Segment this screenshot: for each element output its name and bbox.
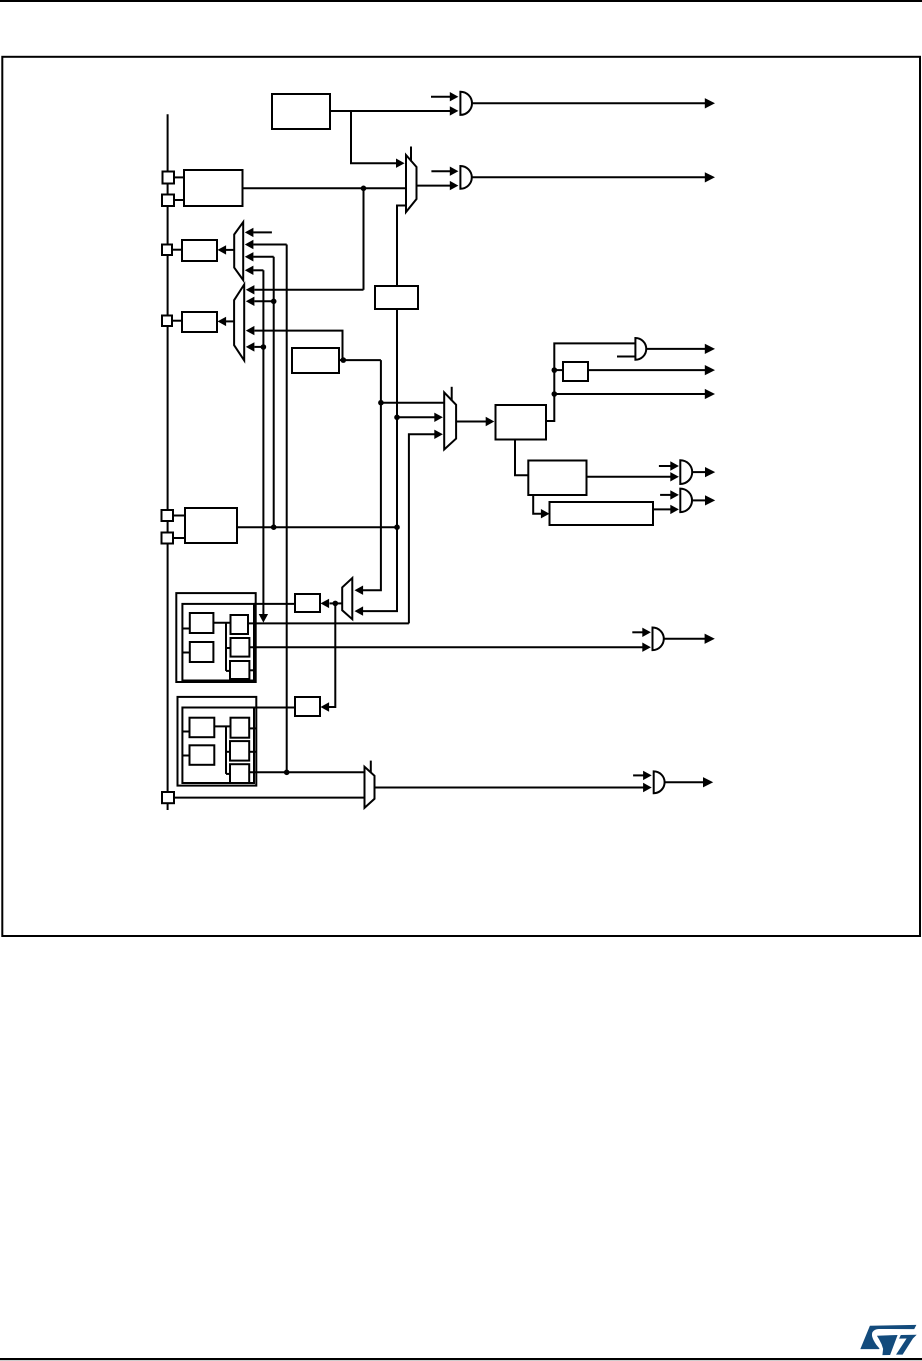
- wire M3 input 4 from V1: [255, 346, 264, 348]
- arrowhead CPU clock output: [705, 389, 715, 399]
- wire CPU clock line: [554, 393, 706, 395]
- wire P5 to B13: [173, 515, 185, 517]
- register box A-d: [231, 638, 250, 657]
- arrowhead G4 upper input: [670, 490, 679, 499]
- wire V1 vertical: [262, 270, 264, 614]
- wire group A rail: [225, 623, 227, 671]
- arrowhead into mux M4 top input: [355, 586, 364, 595]
- junction node rail at B10: [552, 367, 558, 373]
- stub wire G2 upper input: [431, 170, 450, 172]
- arrowhead M3 input 3: [246, 326, 255, 335]
- wire G7 output: [646, 348, 706, 350]
- pad P4: [162, 316, 172, 327]
- register box A-b: [190, 642, 214, 662]
- and-gate G2: [460, 166, 471, 189]
- arrowhead G4 output: [705, 495, 715, 505]
- mux M6 master clock switch: [444, 392, 456, 449]
- wire V8 from L2 up to mux M6 input 3: [409, 434, 436, 623]
- wire G6 output: [665, 781, 705, 783]
- arrowhead mux M6 input 3: [434, 430, 443, 439]
- wire M1 output to G2: [417, 185, 451, 187]
- and-gate G1: [460, 92, 472, 115]
- register box A-a: [190, 613, 214, 633]
- wire group A rail to reg e: [226, 670, 230, 672]
- pad P3: [162, 245, 172, 256]
- mux M5: [365, 767, 375, 808]
- register box B-b: [190, 745, 215, 765]
- arrowhead G5 output: [705, 634, 715, 644]
- pad P1 OSCIN: [163, 172, 175, 184]
- box B9 clock divider CKM: [496, 405, 547, 440]
- arrowhead into mux M4 lower input: [355, 606, 364, 615]
- pad P2 OSCOUT: [162, 195, 174, 207]
- arrowhead M3 input 1: [246, 285, 255, 294]
- wire M6 output to B9: [456, 421, 486, 423]
- arrowhead V1 onto L2 line: [259, 614, 268, 623]
- arrowhead G2 output: [705, 172, 715, 182]
- mux M5 select stub: [370, 761, 372, 773]
- register box A-e: [230, 661, 249, 679]
- wire B13 output to V7 line: [237, 526, 397, 528]
- wire B10 output: [588, 369, 707, 371]
- wire group A left bracket: [183, 628, 190, 630]
- wire M3 input 3 from LSI: [255, 331, 343, 361]
- register box B-d: [230, 741, 249, 761]
- wire V9 down to B8: [329, 603, 335, 707]
- wire M4 output to B7: [330, 602, 343, 604]
- arrowhead M3 input 4: [246, 342, 255, 351]
- and-gate G4: [680, 489, 692, 512]
- wire G3 output: [692, 471, 707, 473]
- box B6 LSI oscillator: [292, 348, 339, 373]
- arrowhead into B9: [486, 417, 495, 426]
- arrowhead G5 upper input: [642, 628, 651, 637]
- wire M5 output to G6: [375, 787, 644, 789]
- stub wire G1 upper input: [431, 96, 451, 98]
- stub wire B-d to frame: [249, 751, 256, 753]
- wire M2 input 4 from V1: [253, 269, 263, 271]
- wire V7 branch to mux M6 input 2: [397, 416, 436, 418]
- arrowhead M2 input 3: [245, 252, 254, 261]
- wire M3 input 1 from HSE V4: [255, 289, 364, 291]
- wire G2 output: [472, 176, 707, 178]
- junction node V2 at B13 line: [271, 524, 277, 530]
- arrowhead G4 lower input: [670, 505, 679, 514]
- wire group A left bracket lower: [183, 652, 190, 654]
- register box B-e: [230, 764, 249, 783]
- arrowhead G2 upper input: [450, 167, 459, 176]
- wire P1 to B2: [174, 176, 184, 178]
- wire rail to B10: [554, 369, 563, 371]
- wire group A to B7: [254, 603, 295, 605]
- and-gate G3: [680, 460, 692, 484]
- mux M2: [234, 222, 243, 280]
- arrowhead G7 output: [705, 344, 715, 354]
- arrowhead G5 lower input: [642, 643, 651, 652]
- arrowhead into B8: [321, 702, 330, 711]
- arrowhead into B4: [218, 245, 227, 254]
- arrowhead into mux M1 top input: [396, 159, 405, 168]
- wire B2 output to mux M1: [243, 187, 407, 189]
- box B7 peripheral divider: [295, 594, 320, 612]
- stub wire A-e to frame: [249, 669, 255, 671]
- arrowhead M2 input 1: [245, 228, 254, 237]
- wire G4 output: [692, 499, 707, 501]
- wire B12 output to G4: [653, 508, 671, 510]
- wire B9 output jog up: [546, 343, 635, 421]
- junction node V6 at mux M6 input 1: [378, 400, 384, 406]
- wire M3 input 2 from V2: [255, 300, 275, 302]
- stub wire G7 lower input: [617, 356, 635, 358]
- junction node V3 at group B line: [284, 770, 290, 776]
- group B inner box: [182, 708, 254, 784]
- wire L3 from A-d to G5: [249, 646, 643, 648]
- box B10 divider: [563, 362, 588, 381]
- wire L2 from A-c to V8: [248, 622, 409, 624]
- arrowhead G3 upper input: [670, 461, 679, 470]
- wire P6 to B13: [173, 537, 185, 539]
- mux M1 select stub: [410, 147, 412, 162]
- figure frame: [2, 57, 920, 936]
- junction node V7 at B13 line: [394, 524, 400, 530]
- box B8 peripheral divider: [295, 697, 320, 716]
- wire P3 to B4: [172, 249, 182, 251]
- junction node HSE line: [361, 186, 367, 192]
- wire B6 output: [339, 359, 381, 361]
- wire V7 from B3 down to mux M4: [363, 309, 398, 611]
- stub wire M2 input 1: [253, 231, 272, 233]
- arrowhead into B7: [321, 599, 330, 608]
- mux M3: [234, 285, 244, 361]
- arrowhead G6 output: [703, 777, 713, 787]
- ST logo: [860, 1325, 916, 1355]
- junction node M4 output at V9: [333, 601, 339, 607]
- wire M2 input 3 from V2: [253, 256, 274, 258]
- arrowhead mux M6 input 2: [434, 413, 443, 422]
- box B1 HSI oscillator: [272, 94, 330, 129]
- bottom rule: [0, 1358, 922, 1360]
- register box B-c: [231, 718, 250, 738]
- and-gate G5: [653, 628, 664, 651]
- mux M6 select stub: [451, 387, 453, 401]
- junction node rail at CPU line: [552, 391, 558, 397]
- stub wire G4 upper input: [660, 494, 671, 496]
- arrowhead into G2 lower input: [450, 181, 459, 190]
- pad P5: [162, 510, 174, 521]
- arrowhead into B5: [218, 317, 227, 326]
- mux M4 peripheral clock switch: [342, 578, 352, 619]
- box B12 clock detector: [550, 502, 654, 525]
- arrowhead G6 lower input: [643, 783, 652, 792]
- wire B1 output to gate G1: [330, 110, 451, 112]
- wire V6 down to mux M4 top input: [363, 360, 381, 590]
- wire group A reg a to reg c: [213, 622, 230, 624]
- wire G5 output: [664, 638, 707, 640]
- arrowhead B10 output: [705, 365, 715, 375]
- junction node V2 at mux M3 input 2: [271, 299, 277, 305]
- mux M1: [406, 155, 417, 212]
- top rule: [0, 0, 922, 2]
- wire L5 from B-e to mux M5: [249, 771, 364, 773]
- wire group B rail to reg e: [226, 773, 230, 775]
- arrowhead G3 lower input: [670, 472, 679, 481]
- wire P7 to mux M5: [174, 797, 365, 799]
- wire V3 vertical: [286, 245, 288, 773]
- wire group B left bracket lower: [183, 755, 190, 757]
- and-gate G7: [635, 338, 646, 360]
- wire group B reg a to reg c: [214, 725, 230, 727]
- arrowhead G6 upper input: [643, 771, 652, 780]
- wire B9 down to B11: [515, 440, 528, 476]
- wire M2 input 2 from V3: [253, 244, 287, 246]
- wire M1 lower leg jog: [397, 206, 406, 287]
- arrowhead into G1 lower input: [450, 106, 459, 115]
- box B3 prescaler: [375, 286, 418, 309]
- pad P7 CLK pin: [162, 792, 174, 803]
- wire left pin bus: [167, 114, 169, 810]
- wire P2 to B2: [174, 199, 184, 201]
- register box B-a: [190, 718, 215, 738]
- box B2 HSE oscillator: [184, 170, 243, 206]
- wire group B rail to reg d: [226, 751, 230, 753]
- box B11 CSS unit: [528, 461, 586, 496]
- wire P4 to B5: [172, 320, 182, 322]
- wire B11 down to B12: [533, 495, 542, 514]
- group A inner box: [182, 604, 254, 681]
- arrowhead G1 upper input: [450, 92, 459, 101]
- wire M2 output to B4: [226, 249, 234, 251]
- junction node V7 to mux M6: [394, 415, 400, 421]
- group B outer box: [178, 697, 257, 786]
- wire group B to B8: [254, 707, 295, 709]
- wire G1 output: [472, 102, 707, 104]
- wire V4 HSE down to mux M3: [363, 188, 365, 289]
- junction node B6 output at V5: [341, 357, 347, 363]
- group A outer box: [176, 593, 255, 682]
- wire V6 branch to mux M6 input 1: [381, 402, 444, 404]
- stub wire B-c to frame: [249, 727, 256, 729]
- wire V2 vertical: [273, 257, 275, 527]
- pad P6: [162, 533, 174, 544]
- wire group B left bracket: [183, 731, 190, 733]
- arrowhead G1 output: [705, 98, 715, 108]
- box B5 clock divider: [182, 312, 217, 332]
- junction node V1 at mux M3 input 4: [261, 344, 267, 350]
- arrowhead into B12: [541, 509, 550, 518]
- wire branch from B1 down to mux M1: [351, 111, 397, 163]
- box B13 LSE oscillator: [185, 508, 237, 543]
- wire B11 output to G3: [587, 476, 672, 478]
- arrowhead M2 input 2: [245, 240, 254, 249]
- wire M3 output to B5: [226, 320, 234, 322]
- stub wire G5 upper input: [632, 631, 643, 633]
- stub wire G6 upper input: [633, 774, 643, 776]
- arrowhead G3 output: [705, 467, 715, 477]
- register box A-c: [231, 615, 249, 634]
- and-gate G6: [654, 771, 665, 793]
- stub wire G3 upper input: [659, 465, 671, 467]
- wire group A rail to reg d: [226, 647, 231, 649]
- arrowhead M2 input 4: [245, 266, 254, 275]
- arrowhead M3 input 2: [246, 297, 255, 306]
- wire group B rail: [225, 726, 227, 774]
- box B4 clock divider: [182, 240, 217, 261]
